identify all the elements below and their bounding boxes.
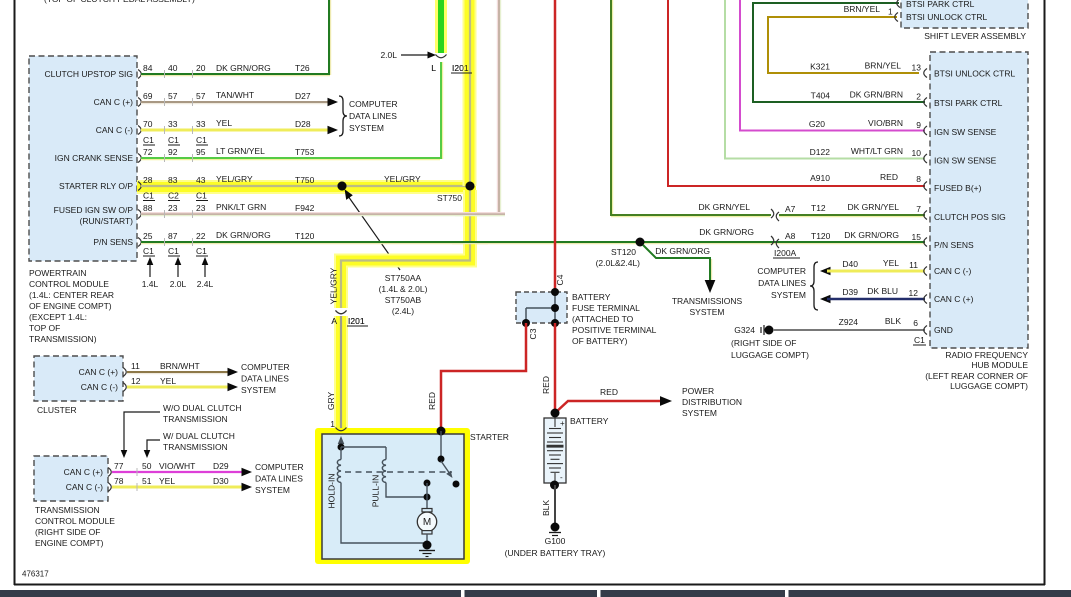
svg-text:FUSED IGN SW O/P: FUSED IGN SW O/P — [54, 205, 134, 215]
svg-text:T120: T120 — [295, 231, 315, 241]
engine variant arrows 1.4L 2.0L 2.4L — [149, 262, 151, 277]
powertrain control module PCM box — [29, 56, 137, 261]
svg-text:OF BATTERY): OF BATTERY) — [572, 336, 628, 346]
svg-text:CAN C (+): CAN C (+) — [94, 97, 134, 107]
svg-text:C1: C1 — [196, 135, 207, 145]
svg-text:C1: C1 — [196, 191, 207, 201]
svg-text:72: 72 — [143, 147, 153, 157]
hold-in return wire — [341, 483, 427, 544]
svg-text:2.0L: 2.0L — [170, 279, 187, 289]
svg-text:77: 77 — [114, 461, 124, 471]
w/ dual clutch transmission callout — [147, 440, 160, 452]
svg-text:C1: C1 — [168, 246, 179, 256]
svg-text:20: 20 — [196, 63, 206, 73]
svg-text:L: L — [431, 63, 436, 73]
svg-text:T26: T26 — [295, 63, 310, 73]
wire F942 segment over band redraw — [455, 213, 505, 215]
svg-text:(UNDER BATTERY TRAY): (UNDER BATTERY TRAY) — [505, 548, 606, 558]
svg-text:RED: RED — [427, 392, 437, 410]
svg-text:CAN C (-): CAN C (-) — [96, 125, 133, 135]
svg-text:C3: C3 — [528, 328, 538, 339]
computer data lines brace right — [810, 262, 818, 310]
pull-in return wire — [386, 483, 427, 498]
cluster box — [34, 356, 123, 401]
svg-text:1: 1 — [888, 7, 893, 17]
svg-text:92: 92 — [168, 147, 178, 157]
bottom toolbar — [0, 590, 1071, 597]
transmission control module box — [34, 456, 108, 501]
wire YEL/GRY splice to starter routing highlighted — [341, 190, 470, 308]
svg-text:VIO/BRN: VIO/BRN — [868, 118, 903, 128]
svg-text:IGN SW SENSE: IGN SW SENSE — [934, 127, 997, 137]
svg-text:CLUTCH UPSTOP SIG: CLUTCH UPSTOP SIG — [45, 69, 133, 79]
svg-text:(LEFT REAR CORNER OF: (LEFT REAR CORNER OF — [925, 371, 1028, 381]
svg-text:OF ENGINE COMPT): OF ENGINE COMPT) — [29, 301, 112, 311]
svg-text:A8: A8 — [785, 231, 796, 241]
svg-text:DK GRN/ORG: DK GRN/ORG — [216, 63, 271, 73]
svg-text:43: 43 — [196, 175, 206, 185]
hold-in coil branch junction — [338, 444, 345, 451]
svg-text:BTSI UNLOCK CTRL: BTSI UNLOCK CTRL — [934, 69, 1016, 79]
svg-text:D122: D122 — [810, 147, 831, 157]
svg-text:(RIGHT SIDE OF: (RIGHT SIDE OF — [35, 527, 101, 537]
svg-text:C1: C1 — [143, 135, 154, 145]
svg-text:TRANSMISSIONS: TRANSMISSIONS — [672, 296, 743, 306]
svg-text:D39: D39 — [842, 287, 858, 297]
svg-text:DK GRN/ORG: DK GRN/ORG — [655, 246, 710, 256]
battery — [551, 409, 560, 418]
wire RED fuse terminal to battery — [554, 323, 557, 413]
svg-text:T12: T12 — [811, 203, 826, 213]
svg-text:BRN/YEL: BRN/YEL — [865, 61, 902, 71]
svg-text:DK GRN/ORG: DK GRN/ORG — [216, 230, 271, 240]
svg-text:87: 87 — [168, 231, 178, 241]
svg-text:M: M — [423, 517, 431, 528]
svg-text:BTSI PARK CTRL: BTSI PARK CTRL — [906, 0, 975, 9]
svg-text:BTSI UNLOCK CTRL: BTSI UNLOCK CTRL — [906, 12, 988, 22]
svg-text:HOLD-IN: HOLD-IN — [327, 474, 337, 509]
ground G100 — [551, 523, 560, 532]
svg-text:DATA LINES: DATA LINES — [241, 374, 289, 384]
svg-text:YEL/GRY: YEL/GRY — [329, 267, 339, 304]
svg-text:ST120: ST120 — [611, 247, 636, 257]
svg-text:C2: C2 — [168, 191, 179, 201]
svg-text:TRANSMISSION: TRANSMISSION — [35, 505, 100, 515]
svg-text:DISTRIBUTION: DISTRIBUTION — [682, 397, 742, 407]
pointer line to splice ST750AA — [348, 196, 400, 270]
svg-text:FUSE TERMINAL: FUSE TERMINAL — [572, 303, 640, 313]
pull-in coil — [385, 447, 387, 460]
branch DK GRN/ORG to transmissions system — [643, 245, 710, 281]
svg-text:7: 7 — [916, 204, 921, 214]
svg-text:T120: T120 — [811, 231, 831, 241]
svg-text:(2.0L&2.4L): (2.0L&2.4L) — [596, 258, 641, 268]
svg-text:LT GRN/YEL: LT GRN/YEL — [216, 146, 265, 156]
svg-text:POWERTRAIN: POWERTRAIN — [29, 268, 86, 278]
svg-text:70: 70 — [143, 119, 153, 129]
svg-text:CAN C (+): CAN C (+) — [79, 367, 119, 377]
battery fuse terminal box — [516, 292, 567, 323]
wire BRN/WHT cluster CAN C(+) — [123, 368, 126, 377]
wire Z924 BLK ground to GND pin — [773, 329, 925, 331]
svg-text:P/N SENS: P/N SENS — [934, 240, 974, 250]
wire D30 YEL TCM CAN C(-) — [108, 483, 111, 492]
svg-text:VIO/WHT: VIO/WHT — [159, 461, 195, 471]
svg-text:25: 25 — [143, 231, 153, 241]
wire T12 DK GRN/YEL to pin 7 — [779, 214, 925, 216]
svg-text:C1: C1 — [196, 246, 207, 256]
svg-text:BLK: BLK — [885, 316, 901, 326]
computer data lines system brace left — [339, 96, 347, 136]
svg-text:DK GRN/ORG: DK GRN/ORG — [699, 227, 754, 237]
svg-text:12: 12 — [909, 288, 919, 298]
svg-text:DATA LINES: DATA LINES — [255, 474, 303, 484]
svg-text:RADIO FREQUENCY: RADIO FREQUENCY — [945, 350, 1028, 360]
svg-text:POWER: POWER — [682, 386, 714, 396]
svg-text:SYSTEM: SYSTEM — [349, 123, 384, 133]
svg-text:33: 33 — [168, 119, 178, 129]
svg-text:SYSTEM: SYSTEM — [682, 408, 717, 418]
splice junction dot ST750 — [466, 182, 475, 191]
svg-text:CLUSTER: CLUSTER — [37, 405, 77, 415]
svg-text:COMPUTER: COMPUTER — [241, 362, 290, 372]
svg-text:40: 40 — [168, 63, 178, 73]
diagram frame border — [14, 0, 16, 585]
svg-text:BATTERY: BATTERY — [572, 292, 611, 302]
wire F942 PNK/LT GRN fused ign sw o/p — [138, 210, 141, 219]
svg-text:GND: GND — [934, 325, 953, 335]
shift lever assembly box — [901, 0, 1028, 28]
starter feed junction dot red — [437, 427, 446, 436]
svg-text:(ATTACHED TO: (ATTACHED TO — [572, 314, 634, 324]
svg-text:YEL/GRY: YEL/GRY — [216, 174, 253, 184]
connector I201 pin L symbol — [436, 55, 447, 58]
svg-text:BTSI PARK CTRL: BTSI PARK CTRL — [934, 98, 1003, 108]
svg-text:ENGINE COMPT): ENGINE COMPT) — [35, 538, 104, 548]
svg-text:K321: K321 — [810, 62, 830, 72]
svg-text:TRANSMISSION: TRANSMISSION — [163, 442, 228, 452]
svg-text:C1: C1 — [143, 191, 154, 201]
svg-text:22: 22 — [196, 231, 206, 241]
highlighted LT GRN/YEL wire above connector I201 L — [435, 0, 447, 53]
svg-text:28: 28 — [143, 175, 153, 185]
svg-text:FUSED B(+): FUSED B(+) — [934, 183, 982, 193]
svg-text:PNK/LT GRN: PNK/LT GRN — [216, 202, 266, 212]
svg-text:(2.4L): (2.4L) — [392, 306, 414, 316]
svg-text:T750: T750 — [295, 175, 315, 185]
svg-text:DK GRN/YEL: DK GRN/YEL — [848, 202, 900, 212]
wire T753 LT GRN/YEL ign crank sense — [138, 154, 141, 163]
svg-text:IGN SW SENSE: IGN SW SENSE — [934, 156, 997, 166]
connector I201 pin A labels redraw — [336, 311, 347, 314]
svg-text:F942: F942 — [295, 203, 315, 213]
svg-text:+: + — [560, 419, 565, 428]
svg-text:G20: G20 — [809, 119, 825, 129]
svg-text:BATTERY: BATTERY — [570, 416, 609, 426]
svg-text:HUB MODULE: HUB MODULE — [971, 360, 1028, 370]
wire D122 WHT/LT GRN ign sw sense — [725, 0, 925, 159]
svg-text:T404: T404 — [811, 91, 831, 101]
wire K321 BRN/YEL BTSI unlock ctrl loop — [768, 17, 919, 73]
svg-text:D40: D40 — [842, 259, 858, 269]
svg-text:10: 10 — [912, 148, 922, 158]
svg-text:6: 6 — [913, 318, 918, 328]
svg-text:23: 23 — [196, 203, 206, 213]
wire D29 VIO/WHT TCM CAN C(+) — [108, 468, 111, 477]
svg-text:COMPUTER: COMPUTER — [255, 462, 304, 472]
svg-text:C1: C1 — [143, 246, 154, 256]
wire D39 DK BLU CAN C(+) — [820, 295, 831, 304]
splice junction dot ST750AA — [338, 182, 347, 191]
svg-text:CLUTCH POS SIG: CLUTCH POS SIG — [934, 212, 1006, 222]
splice dot ST750 redraw — [466, 182, 475, 191]
svg-text:1.4L: 1.4L — [142, 279, 159, 289]
starter motor — [426, 483, 428, 509]
svg-text:SHIFT LEVER ASSEMBLY: SHIFT LEVER ASSEMBLY — [924, 31, 1026, 41]
wire A910 RED fused B+ — [668, 0, 925, 186]
svg-text:P/N SENS: P/N SENS — [93, 237, 133, 247]
svg-text:GRY: GRY — [326, 392, 336, 411]
svg-text:G100: G100 — [545, 536, 566, 546]
svg-text:WHT/LT GRN: WHT/LT GRN — [851, 146, 903, 156]
svg-text:(1.4L & 2.0L): (1.4L & 2.0L) — [379, 284, 428, 294]
svg-text:57: 57 — [196, 91, 206, 101]
radio frequency hub module box — [930, 52, 1028, 348]
wire YEL cluster CAN C(-) — [123, 383, 126, 392]
svg-text:CAN C (-): CAN C (-) — [81, 382, 118, 392]
svg-text:TOP OF: TOP OF — [29, 323, 60, 333]
svg-text:-: - — [560, 473, 563, 482]
wire RED branch to power distribution — [555, 401, 662, 413]
svg-text:TRANSMISSION): TRANSMISSION) — [29, 334, 97, 344]
wire YEL/GRY vertical from top to splice ST750 highlighted — [463, 0, 477, 186]
svg-text:57: 57 — [168, 91, 178, 101]
svg-text:YEL: YEL — [159, 476, 175, 486]
svg-text:95: 95 — [196, 147, 206, 157]
svg-text:PULL-IN: PULL-IN — [371, 475, 381, 508]
svg-text:2.4L: 2.4L — [197, 279, 214, 289]
svg-text:SYSTEM: SYSTEM — [690, 307, 725, 317]
svg-text:83: 83 — [168, 175, 178, 185]
svg-text:13: 13 — [912, 63, 922, 73]
svg-text:CAN C (+): CAN C (+) — [64, 467, 104, 477]
wire DK GRN/BRN BTSI park ctrl loop — [753, 3, 925, 102]
svg-text:(EXCEPT 1.4L:: (EXCEPT 1.4L: — [29, 312, 87, 322]
svg-text:DK GRN/ORG: DK GRN/ORG — [844, 230, 899, 240]
svg-text:CAN C (-): CAN C (-) — [66, 482, 103, 492]
svg-text:W/O DUAL CLUTCH: W/O DUAL CLUTCH — [163, 403, 242, 413]
svg-text:SYSTEM: SYSTEM — [241, 385, 276, 395]
wire T120 segment over band redraw — [452, 241, 488, 243]
svg-text:SYSTEM: SYSTEM — [771, 290, 806, 300]
svg-text:D29: D29 — [213, 461, 229, 471]
svg-text:CONTROL MODULE: CONTROL MODULE — [35, 516, 115, 526]
svg-text:11: 11 — [131, 361, 140, 371]
wire T120 DK GRN/ORG p/n sens — [138, 238, 141, 247]
svg-text:78: 78 — [114, 476, 124, 486]
wire RED battery feed from top — [554, 0, 557, 292]
wire G20 VIO/BRN ign sw sense — [740, 0, 925, 131]
hold-in coil — [340, 447, 342, 460]
fuse terminal internal wiring — [554, 292, 556, 323]
splice dot ST120 on T120 wire — [636, 238, 645, 247]
svg-text:D27: D27 — [295, 91, 311, 101]
svg-text:BRN/YEL: BRN/YEL — [844, 4, 881, 14]
solenoid linkage dashed — [345, 471, 452, 473]
svg-text:ST750AB: ST750AB — [385, 295, 422, 305]
svg-text:BLK: BLK — [541, 500, 551, 516]
svg-text:G324: G324 — [734, 325, 755, 335]
starter switch — [440, 431, 442, 458]
svg-text:C1: C1 — [914, 335, 925, 345]
inline connector A8 I200A — [771, 236, 774, 245]
svg-text:YEL: YEL — [160, 376, 176, 386]
wire D28 YEL CAN C(-) — [138, 126, 141, 135]
svg-text:SYSTEM: SYSTEM — [255, 485, 290, 495]
starter highlighted box — [315, 428, 470, 564]
svg-text:Z924: Z924 — [839, 317, 859, 327]
svg-text:I201: I201 — [452, 63, 469, 73]
wire RED fuse terminal to starter — [441, 323, 526, 428]
wire DK GRN/YEL clutch pos sig — [611, 0, 771, 215]
svg-text:RED: RED — [600, 387, 618, 397]
splice dot ST750AA redraw — [338, 182, 347, 191]
svg-text:CONTROL MODULE: CONTROL MODULE — [29, 279, 109, 289]
svg-text:STARTER RLY O/P: STARTER RLY O/P — [59, 181, 133, 191]
svg-text:YEL: YEL — [883, 258, 899, 268]
svg-text:15: 15 — [912, 232, 922, 242]
wire BLK battery to ground — [550, 481, 559, 490]
svg-text:TAN/WHT: TAN/WHT — [216, 90, 254, 100]
svg-text:(TOP OF CLUTCH PEDAL ASSEMBLY): (TOP OF CLUTCH PEDAL ASSEMBLY) — [44, 0, 195, 4]
svg-text:50: 50 — [142, 461, 152, 471]
starter ground — [423, 541, 432, 550]
svg-text:C1: C1 — [168, 135, 179, 145]
svg-text:12: 12 — [131, 376, 141, 386]
svg-text:CAN C (-): CAN C (-) — [934, 266, 971, 276]
svg-text:LUGGAGE COMPT): LUGGAGE COMPT) — [950, 381, 1028, 391]
wire T26 DK GRN/ORG clutch upstop sig — [138, 70, 141, 79]
svg-text:(RIGHT SIDE OF: (RIGHT SIDE OF — [731, 338, 797, 348]
svg-text:I201: I201 — [348, 316, 365, 326]
svg-text:C4: C4 — [555, 274, 565, 285]
svg-text:POSITIVE TERMINAL: POSITIVE TERMINAL — [572, 325, 657, 335]
svg-text:COMPUTER: COMPUTER — [349, 99, 398, 109]
svg-text:ST750AA: ST750AA — [385, 273, 422, 283]
svg-text:69: 69 — [143, 91, 153, 101]
svg-text:LUGGAGE COMPT): LUGGAGE COMPT) — [731, 350, 809, 360]
svg-text:(RUN/START): (RUN/START) — [79, 216, 133, 226]
svg-text:T753: T753 — [295, 147, 315, 157]
svg-text:YEL: YEL — [216, 118, 232, 128]
svg-text:IGN CRANK SENSE: IGN CRANK SENSE — [55, 153, 134, 163]
svg-text:A7: A7 — [785, 204, 796, 214]
wire D40 YEL CAN C(-) — [820, 267, 831, 276]
svg-text:1: 1 — [330, 419, 335, 429]
svg-text:DK BLU: DK BLU — [867, 286, 898, 296]
svg-text:A910: A910 — [810, 173, 830, 183]
svg-text:DATA LINES: DATA LINES — [758, 278, 806, 288]
starter pin 1 entry connector — [336, 428, 347, 431]
svg-text:RED: RED — [541, 376, 551, 394]
svg-text:TRANSMISSION: TRANSMISSION — [163, 414, 228, 424]
svg-text:DATA LINES: DATA LINES — [349, 111, 397, 121]
inline connector A7 — [771, 209, 774, 218]
svg-text:8: 8 — [916, 174, 921, 184]
svg-text:88: 88 — [143, 203, 153, 213]
svg-text:BRN/WHT: BRN/WHT — [160, 361, 200, 371]
svg-text:CAN C (+): CAN C (+) — [934, 294, 974, 304]
wire GRY connector I201 to starter highlighted — [334, 316, 348, 430]
svg-text:23: 23 — [168, 203, 178, 213]
svg-text:COMPUTER: COMPUTER — [757, 266, 806, 276]
svg-text:51: 51 — [142, 476, 152, 486]
svg-text:DK GRN/BRN: DK GRN/BRN — [850, 90, 903, 100]
w/o dual clutch transmission callout — [124, 412, 160, 452]
svg-text:33: 33 — [196, 119, 206, 129]
svg-text:I200A: I200A — [774, 248, 797, 258]
svg-text:YEL/GRY: YEL/GRY — [384, 174, 421, 184]
svg-text:W/ DUAL CLUTCH: W/ DUAL CLUTCH — [163, 431, 235, 441]
svg-text:(1.4L: CENTER REAR: (1.4L: CENTER REAR — [29, 290, 114, 300]
svg-text:476317: 476317 — [22, 570, 49, 579]
wire T750 YEL/GRY starter rly o/p highlighted — [137, 180, 476, 194]
svg-text:STARTER: STARTER — [470, 432, 509, 442]
svg-text:DK GRN/YEL: DK GRN/YEL — [699, 202, 751, 212]
svg-text:A: A — [331, 316, 337, 326]
svg-text:D30: D30 — [213, 476, 229, 486]
svg-text:RED: RED — [880, 172, 898, 182]
svg-text:11: 11 — [909, 260, 918, 270]
svg-text:9: 9 — [916, 120, 921, 130]
svg-text:D28: D28 — [295, 119, 311, 129]
svg-text:ST750: ST750 — [437, 193, 462, 203]
svg-text:2: 2 — [916, 92, 921, 102]
wire D27 TAN/WHT CAN C(+) — [138, 98, 141, 107]
svg-text:84: 84 — [143, 63, 153, 73]
svg-text:2.0L: 2.0L — [380, 50, 397, 60]
connector I201 pin A symbol — [336, 311, 347, 314]
